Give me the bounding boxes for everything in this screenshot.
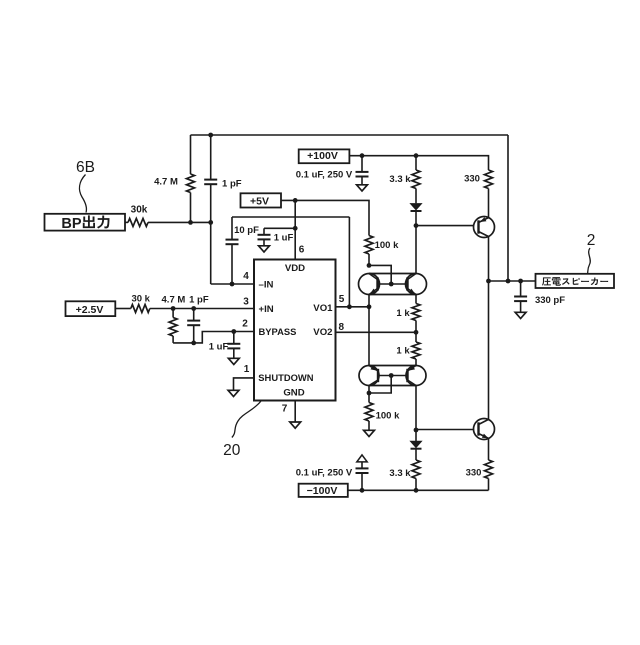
svg-text:5: 5 <box>339 294 345 305</box>
wire 30k to +IN <box>150 308 254 310</box>
svg-text:+IN: +IN <box>259 304 274 315</box>
wire 1uF vdd to ground <box>263 239 265 245</box>
Q2 right base bar <box>406 369 408 382</box>
svg-text:6B: 6B <box>76 159 95 176</box>
leader squiggle 2 to speaker box <box>588 248 591 274</box>
resistor 4.7M feedback body <box>187 174 195 193</box>
node dot 1pF bias column <box>191 306 196 311</box>
wire bias network bottom <box>173 332 254 343</box>
wire 1k lower to Q2 emitter <box>415 359 417 366</box>
svg-text:BYPASS: BYPASS <box>259 326 297 337</box>
ground arrow up 0.1uF lower <box>357 455 367 462</box>
wire Q2 left collector down <box>368 386 370 394</box>
capacitor 1pF bias: stub <box>193 309 195 321</box>
ground symbol 100k lower <box>364 430 375 436</box>
feedback rail VO1 to -IN <box>232 216 349 218</box>
wire 0.1uF lower to rail <box>361 473 363 490</box>
leader squiggle 20 to IC <box>232 401 261 438</box>
junction dot Q2 base node <box>389 373 394 378</box>
wire 100k lower to ground <box>368 421 370 430</box>
wire 330 upper to Q3 emitter <box>488 189 490 218</box>
capacitor 1uF bypass plates <box>227 343 240 345</box>
capacitor 1uF bypass: stub <box>233 332 235 344</box>
wire 0.1uF upper to ground <box>361 177 363 185</box>
svg-text:−100V: −100V <box>307 485 338 497</box>
Q4 collector diagonal <box>479 419 489 424</box>
ground symbol 330pF <box>515 312 526 318</box>
Q2 left base bar <box>377 369 379 382</box>
resistor 4.7M bias body <box>169 318 177 337</box>
terminal box BP output <box>45 214 126 231</box>
Q1 shared base line <box>378 283 408 285</box>
svg-text:3.3 k: 3.3 k <box>389 468 411 479</box>
wire Q1 right collector up to diode node <box>415 226 417 274</box>
resistor 3.3k lower body <box>412 460 420 479</box>
-100V rail <box>348 489 489 491</box>
wire 10pF to -IN <box>231 244 233 284</box>
wire VO2 pin8 <box>336 331 417 333</box>
svg-text:3.3 k: 3.3 k <box>389 174 411 185</box>
resistor 4.7M feedback: wire up <box>190 193 192 223</box>
svg-text:1 pF: 1 pF <box>222 179 242 190</box>
wire diode D1 to base node <box>415 212 417 226</box>
resistor 4.7M bias: stub <box>172 309 174 318</box>
top feedback rail <box>191 134 509 136</box>
junction dot lower collector-base tie <box>367 391 372 396</box>
node dot at 1pF column <box>208 220 213 225</box>
piezo speaker box text <box>542 277 551 285</box>
Q2 right collector diagonal <box>408 380 417 386</box>
capacitor 10pF plates <box>226 239 239 241</box>
svg-text:7: 7 <box>282 404 288 415</box>
wire 3.3k upper to diode <box>415 189 417 204</box>
svg-text:–IN: –IN <box>259 279 274 290</box>
svg-text:VO1: VO1 <box>313 303 333 314</box>
junction dot speaker at 330pF <box>518 279 523 284</box>
+100V rail <box>349 156 488 170</box>
wire SHUTDOWN pin1 <box>234 378 255 390</box>
resistor 1k lower body <box>412 342 420 359</box>
wire Q4 emitter to 330 lower <box>488 438 490 460</box>
ground symbol 0.1uF upper <box>357 185 368 191</box>
junction dot 1pF bias bottom <box>191 341 196 346</box>
wire 1k upper to VO2 node <box>415 321 417 333</box>
junction dot 0.1uF upper <box>360 153 365 158</box>
transistor pair Q1 stadium outline <box>369 274 416 295</box>
svg-text:BP: BP <box>61 216 81 232</box>
wire 30k to -IN node <box>148 221 211 223</box>
Q3 base bar <box>477 220 479 233</box>
junction dot upper collector-base tie <box>367 263 372 268</box>
wire 4.7M bias bottom <box>172 336 174 343</box>
wire 100k upper to collector node <box>368 254 370 265</box>
junction dot Q1 base node <box>389 282 394 287</box>
terminal box +5V <box>241 193 282 207</box>
capacitor 1pF bias plates <box>187 320 200 322</box>
Q4 base bar <box>477 422 479 435</box>
svg-text:0.1 uF, 250 V: 0.1 uF, 250 V <box>296 468 353 479</box>
capacitor 330pF: stub <box>520 281 522 297</box>
wire feedback rail down to VO1 <box>348 217 350 307</box>
svg-text:+100V: +100V <box>307 150 338 162</box>
svg-text:1 pF: 1 pF <box>189 295 209 306</box>
wire top rail down to speaker node <box>507 135 509 281</box>
junction dot 3.3k upper <box>414 153 419 158</box>
svg-text:1 uF: 1 uF <box>274 233 294 244</box>
junction dot Q3 base node <box>414 223 419 228</box>
capacitor 1uF vdd plates <box>258 234 271 236</box>
resistor 1k upper: stub <box>415 295 417 304</box>
Q2 shared base line <box>378 375 408 377</box>
Q3 collector diagonal <box>479 232 489 237</box>
transistor Q4 circle <box>474 419 495 440</box>
diode D1 <box>411 204 422 210</box>
terminal box +100V <box>299 149 350 163</box>
svg-text:4: 4 <box>243 271 249 282</box>
svg-text:3: 3 <box>243 297 249 308</box>
resistor 100k lower: stub <box>368 393 370 403</box>
wire Q4 base <box>416 429 474 431</box>
Q2 left emitter arrow <box>371 365 378 370</box>
svg-text:330: 330 <box>466 468 482 479</box>
wire 0.1uF lower top stub <box>361 462 363 469</box>
svg-text:2: 2 <box>242 319 248 330</box>
capacitor 10pF: top stub <box>231 217 233 240</box>
resistor 3.3k upper body <box>412 170 420 189</box>
svg-text:+2.5V: +2.5V <box>76 304 104 316</box>
svg-text:+5V: +5V <box>250 196 269 208</box>
wire Q1 left emitter column crossing to lower pair <box>368 307 370 366</box>
svg-text:4.7 M: 4.7 M <box>154 177 178 188</box>
wire speaker node horizontal <box>489 280 536 282</box>
svg-text:2: 2 <box>587 232 596 249</box>
ground symbol bypass 1uF <box>228 358 239 364</box>
wire -IN vertical drop <box>210 222 212 284</box>
leader squiggle from 6B to BP box <box>79 175 86 213</box>
svg-text:100 k: 100 k <box>375 240 399 251</box>
Q1 left emitter diagonal <box>369 289 378 295</box>
svg-text:VO2: VO2 <box>313 327 332 338</box>
resistor 330 lower body <box>485 460 493 479</box>
svg-text:0.1 uF, 250 V: 0.1 uF, 250 V <box>296 170 353 181</box>
wire -IN horizontal to IC <box>211 283 254 285</box>
transistor Q3 circle <box>474 217 495 238</box>
junction dot VO2 at 1k midpoint <box>414 330 419 335</box>
svg-text:10 pF: 10 pF <box>234 225 259 236</box>
wire collector-base tie upper <box>369 265 391 284</box>
Q3 emitter diagonal <box>479 218 489 223</box>
terminal box -100V <box>299 484 348 497</box>
Q4 emitter diagonal <box>479 434 489 439</box>
junction dot 3.3k lower <box>414 488 419 493</box>
wire 1uF bypass to ground <box>233 348 235 358</box>
terminal box +2.5V <box>66 301 116 316</box>
resistor 1k upper body <box>412 304 420 321</box>
ground symbol vdd 1uF <box>259 246 270 252</box>
capacitor 1uF vdd: stub <box>263 228 265 235</box>
capacitor 330pF plates <box>514 296 527 298</box>
resistor 30k (input) <box>128 218 148 226</box>
junction dot Q4 base node <box>414 428 419 433</box>
junction dot VDD column at +5V <box>293 198 298 203</box>
svg-text:GND: GND <box>283 388 304 399</box>
terminal box piezo speaker <box>536 274 615 288</box>
node dot at 4.7M column <box>188 220 193 225</box>
junction dot VO1 emitter column <box>367 304 372 309</box>
svg-text:30 k: 30 k <box>131 294 150 305</box>
IC amplifier U20 body <box>254 260 336 401</box>
capacitor 1pF feedback plates <box>204 179 217 181</box>
Q2 left emitter diagonal <box>369 366 378 372</box>
junction dot speaker at top-rail column <box>506 279 511 284</box>
wire +2.5V to 30k <box>115 308 131 310</box>
Q2 right emitter diagonal <box>408 366 417 372</box>
wire Q3 base <box>416 225 474 227</box>
resistor 1k lower: stub <box>415 332 417 342</box>
wire BP box to 30k <box>125 221 128 223</box>
wire 3.3k lower to -100V rail <box>415 479 417 491</box>
svg-text:1 k: 1 k <box>396 346 410 357</box>
resistor 100k lower body <box>365 403 373 422</box>
svg-text:SHUTDOWN: SHUTDOWN <box>258 372 313 383</box>
wire 3.3k upper stub <box>415 156 417 170</box>
junction dot BYPASS node <box>231 329 236 334</box>
diode D2 <box>411 441 422 447</box>
junction dot 1uF vdd branch <box>293 226 298 231</box>
wire collector-base tie lower <box>369 376 391 394</box>
Q2 right emitter arrow <box>409 365 416 370</box>
svg-text:6: 6 <box>299 245 305 256</box>
resistor 100k upper body <box>365 236 373 255</box>
node dot 4.7M bias column <box>171 306 176 311</box>
capacitor 0.1uF lower plates <box>356 467 369 469</box>
svg-text:330: 330 <box>464 174 480 185</box>
wire Q2 right collector down to diode node <box>415 386 417 431</box>
svg-text:4.7 M: 4.7 M <box>162 295 186 306</box>
Q1 left emitter arrow <box>370 289 376 294</box>
Q2 left collector diagonal <box>369 380 378 386</box>
Q1 left collector diagonal <box>369 274 378 280</box>
wire 4.7M to top rail <box>190 135 192 174</box>
junction dot 1pF top <box>208 133 213 138</box>
svg-text:1 uF: 1 uF <box>209 342 229 353</box>
Q3 emitter arrow (PNP) <box>480 217 487 222</box>
svg-text:1: 1 <box>244 364 250 375</box>
transistor pair Q2 stadium outline <box>369 366 416 386</box>
capacitor 0.1uF upper: stub <box>361 156 363 172</box>
resistor 330 upper body <box>485 170 493 189</box>
resistor 30 k (bias) <box>131 305 150 313</box>
svg-text:1 k: 1 k <box>396 308 410 319</box>
wire diode D2 to 3.3k lower <box>415 450 417 461</box>
wire Q3 collector to speaker node <box>488 237 490 282</box>
wire 1pF bias bottom <box>193 325 195 343</box>
svg-text:8: 8 <box>339 322 345 333</box>
wire Q1 left emitter to VO1 <box>368 295 370 307</box>
junction dot VO1 feedback <box>347 304 352 309</box>
svg-text:100 k: 100 k <box>376 411 400 422</box>
Q1 right emitter arrow <box>409 289 415 294</box>
wire GND pin7 <box>294 401 296 423</box>
Q1 right collector diagonal <box>408 274 417 280</box>
junction dot 0.1uF lower <box>360 488 365 493</box>
wire 330pF to ground <box>520 301 522 312</box>
wire 1pF to top rail <box>210 135 212 180</box>
wire Q2 collector node to diode D2 <box>415 430 417 442</box>
junction dot 10pF at -IN <box>230 282 235 287</box>
Q1 right base bar <box>406 277 408 290</box>
Q1 left base bar <box>376 277 378 290</box>
wire 330 lower to -100V rail <box>488 479 490 491</box>
ground symbol shutdown <box>228 390 239 396</box>
svg-text:VDD: VDD <box>285 263 305 274</box>
wire 1uF vdd branch <box>264 227 295 229</box>
capacitor 1pF feedback: wire up <box>210 184 212 222</box>
wire VDD column <box>294 200 296 259</box>
wire +5V rail <box>281 200 369 235</box>
capacitor 0.1uF upper plates <box>356 171 369 173</box>
svg-text:20: 20 <box>223 442 241 459</box>
svg-text:30k: 30k <box>131 205 148 216</box>
wire Q3/Q4 collector column <box>488 281 490 419</box>
BP box text kanji <box>83 215 95 228</box>
junction dot speaker at collector column <box>486 279 491 284</box>
svg-text:330 pF: 330 pF <box>535 295 565 306</box>
ground symbol pin7 <box>290 422 301 428</box>
Q4 emitter arrow (NPN) <box>482 434 489 439</box>
Q1 right emitter diagonal <box>408 289 417 295</box>
wire VO1 pin5 <box>336 306 370 308</box>
